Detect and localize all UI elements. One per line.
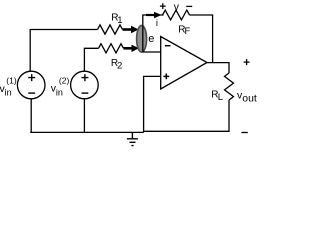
vout minus sign [241,132,247,134]
arrow from R1 into node e [123,28,133,31]
wire inverting input [143,51,161,53]
wire from R2 corner down to source 2 [84,48,98,71]
vout plus sign [244,59,250,65]
wire RL bottom to rail corner [228,100,230,131]
bottom rail left segment [30,131,143,133]
vin2 plus sign [81,74,88,81]
op-amp U1 [161,37,207,90]
vin2 minus sign [82,92,89,94]
resistor RF (feedback) [163,10,190,20]
svg-text:(1): (1) [6,76,17,86]
vin1 plus sign [28,74,35,81]
op-amp plus input sign [163,74,169,80]
wire node vertical and top run to RF [143,15,164,52]
wire non-inverting input down to ground rail [144,76,161,132]
wire op-amp output to RL column [207,63,229,73]
minus sign of v across RF [186,5,192,7]
current arrow i [146,14,155,16]
svg-text:in: in [5,87,12,97]
resistor RL (load) [225,73,234,100]
svg-text:2: 2 [117,60,122,71]
voltage source vin2 [71,71,99,99]
wire RF to feedback corner and down to output [190,15,213,63]
node e highlight blob [137,25,147,52]
svg-text:(2): (2) [59,76,70,86]
voltage source vin1 [17,71,45,99]
resistor R2 [99,44,124,53]
svg-text:F: F [185,26,191,37]
svg-text:L: L [218,92,223,103]
bottom rail right segment [144,130,230,132]
wire source 1 bottom to rail [30,99,32,133]
svg-text:in: in [56,87,63,97]
svg-text:i: i [156,18,158,29]
vin1 minus sign [28,92,35,94]
op-amp minus input sign [165,45,171,47]
wire top-left from left column to R1 [30,30,97,72]
svg-text:out: out [242,94,257,105]
plus sign of v across RF [160,3,166,9]
svg-text:1: 1 [117,15,122,26]
arrow from R2 into node e [124,47,134,50]
wire source 2 bottom to rail [83,99,85,133]
ground [127,132,138,145]
resistor R1 [98,25,123,34]
svg-text:e: e [148,33,154,45]
